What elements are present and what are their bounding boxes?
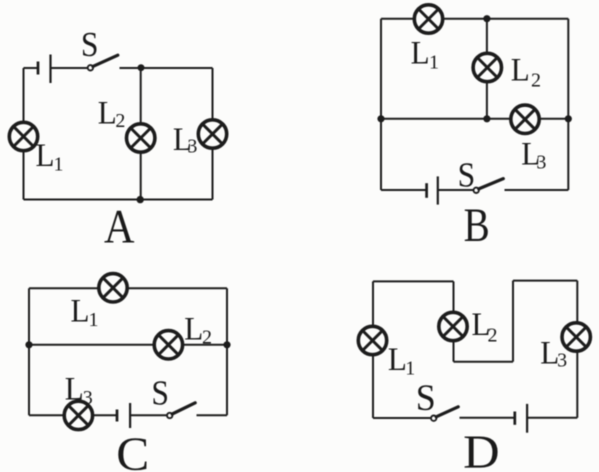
svg-text:2: 2 <box>488 324 498 346</box>
svg-text:S: S <box>458 155 476 194</box>
svg-text:L: L <box>388 342 407 378</box>
svg-text:S: S <box>81 25 99 64</box>
svg-text:A: A <box>104 200 135 253</box>
svg-text:1: 1 <box>405 358 415 380</box>
svg-text:D: D <box>463 426 500 472</box>
svg-text:L: L <box>511 53 530 89</box>
svg-text:L: L <box>36 138 55 174</box>
svg-text:B: B <box>464 199 490 252</box>
svg-text:1: 1 <box>89 309 99 331</box>
svg-text:1: 1 <box>429 52 439 74</box>
svg-text:3: 3 <box>83 387 93 409</box>
svg-text:L: L <box>411 35 430 71</box>
svg-text:3: 3 <box>557 350 567 372</box>
svg-text:3: 3 <box>536 152 546 174</box>
svg-text:L: L <box>184 311 203 347</box>
svg-text:C: C <box>116 428 149 472</box>
svg-text:L: L <box>98 95 117 131</box>
svg-text:S: S <box>416 378 436 419</box>
svg-text:L: L <box>65 372 84 408</box>
svg-text:1: 1 <box>54 153 64 175</box>
svg-text:2: 2 <box>202 327 212 349</box>
svg-text:3: 3 <box>187 136 197 158</box>
svg-text:S: S <box>151 373 169 412</box>
svg-text:2: 2 <box>531 70 541 92</box>
svg-text:L: L <box>71 294 90 330</box>
svg-text:2: 2 <box>115 110 125 132</box>
